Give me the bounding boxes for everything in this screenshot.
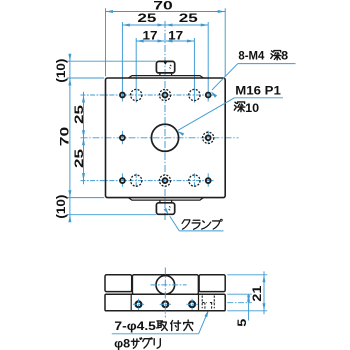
svg-text:8-M4: 8-M4	[238, 49, 264, 63]
crosshair hole (194.4,180.6)	[193, 173, 195, 188]
extension line y=214.7 (bottom knob)	[67, 214, 156, 216]
hidden counterbore hole I (136.2,95.0)	[131, 89, 142, 100]
label 8-M4 kanji FUKA(depth) 8	[271, 51, 281, 60]
clamp bar bottom	[128, 198, 203, 201]
svg-text:(10): (10)	[54, 195, 68, 219]
hidden counterbore hole K (136.2,180.6)	[131, 175, 142, 186]
dimension line 25 25 (top)	[122, 24, 208, 26]
dimension line 21 (side)	[263, 271, 265, 314]
mounting hole phi4.5 with phi8 counterbore G (208.2,137.8)	[206, 135, 211, 140]
front hole P (138.5,304.3)	[136, 301, 142, 307]
svg-text:25: 25	[179, 11, 198, 25]
svg-text:25: 25	[72, 105, 86, 124]
leader clamp	[179, 230, 223, 232]
M16 center hole	[151, 124, 178, 151]
mounting hole phi4.5 with phi8 counterbore H (165.0,180.6)	[163, 178, 168, 183]
extension line right x=225.2	[224, 8, 226, 76]
extension line left x=105.5	[105, 8, 107, 76]
M4 tapped hole D (122.4,180.6)	[120, 178, 125, 183]
clamp bar top	[128, 76, 203, 78]
mounting hole phi4.5 with phi8 counterbore F (165.0,95.0)	[163, 93, 168, 98]
svg-text:8: 8	[281, 49, 288, 63]
clamp knob top notch	[163, 61, 168, 65]
side view table left section	[105, 275, 132, 292]
svg-text:(10): (10)	[54, 59, 68, 83]
M4 tapped hole B (208.2,95.0)	[206, 93, 211, 98]
extension line y=197.6 (plate bottom)	[67, 197, 104, 199]
side view clamp knob circle	[156, 276, 175, 295]
svg-text:7-φ4.5: 7-φ4.5	[114, 319, 156, 333]
row center line y=95	[81, 94, 215, 96]
dimension line (10)/70/(10) (left)	[69, 55, 71, 221]
svg-text:M16 P1: M16 P1	[235, 83, 281, 97]
M4 tapped hole C (122.4,137.8)	[120, 135, 125, 140]
leader 7-phi4.5	[112, 333, 199, 335]
row center line y=180.6	[81, 180, 215, 182]
extension line y=274.8 (side top)	[227, 274, 267, 276]
front hole Q (165.3,304.3)	[162, 301, 168, 307]
side view table right section	[199, 275, 225, 292]
dimension line 25 25 (left)	[83, 92, 85, 184]
extension line x=136.2	[135, 38, 137, 103]
hidden counterbore hole J (194.4,95.0)	[189, 89, 200, 100]
label mounting-hole kanji (toritsuke-ana)	[157, 321, 168, 331]
extension line x=122.4	[121, 22, 123, 102]
label M16 depth 10	[234, 102, 245, 112]
side view knob crosshair	[151, 284, 187, 286]
crosshair hole (136.2,180.6)	[135, 173, 137, 188]
horizontal center line y=137.8	[81, 137, 239, 139]
side view saddle center section	[132, 275, 198, 295]
extension line x=194.4	[193, 38, 195, 103]
hidden counterbore profile (side view)	[201, 296, 203, 309]
extension line y=294.2 (base top)	[227, 293, 252, 295]
crosshair hole (122.4,180.6)	[121, 173, 123, 188]
svg-text:70: 70	[57, 126, 71, 146]
side view vertical center line	[164, 268, 166, 318]
M4 tapped hole E (208.2,180.6)	[206, 178, 211, 183]
vertical center line	[164, 21, 166, 221]
hidden counterbore hole L (194.4,180.6)	[189, 175, 200, 186]
front hole Q crosshair	[160, 303, 171, 305]
clamp knob bottom neck	[159, 200, 161, 203]
svg-text:φ8: φ8	[114, 337, 130, 350]
clamp knob bottom body	[156, 203, 174, 215]
svg-text:17: 17	[168, 28, 183, 42]
side view base block	[105, 294, 225, 311]
label counterbore katakana (zaguri)	[131, 338, 142, 348]
front hole R crosshair	[187, 303, 198, 305]
side view base seam right	[198, 295, 200, 311]
leader M16	[234, 97, 283, 99]
svg-text:17: 17	[143, 28, 158, 42]
clamp knob top body	[156, 61, 174, 73]
extension line x=208.2	[207, 22, 209, 102]
front hole P crosshair	[133, 303, 144, 305]
label clamp (kurampu katakana)	[181, 220, 190, 229]
extension line y=302.7 (counterbore depth)	[227, 302, 252, 304]
front hole R (192.1,304.3)	[189, 301, 195, 307]
extension line y=78 (plate top)	[67, 77, 104, 79]
dimension line 5 (side)	[248, 294, 250, 320]
dimension line 70 (top)	[106, 11, 226, 13]
svg-text:5: 5	[235, 318, 249, 326]
clamp knob top knurl marks	[170, 65, 172, 66]
clamp knob bottom knurl marks	[169, 209, 171, 210]
svg-text:25: 25	[137, 11, 156, 25]
clamp knob top neck	[159, 73, 161, 76]
svg-text:21: 21	[250, 285, 264, 301]
svg-text:10: 10	[245, 101, 259, 115]
crosshair hole (122.4,137.8)	[121, 131, 123, 145]
extension line y=310.8 (side bottom)	[227, 310, 267, 312]
svg-text:25: 25	[72, 149, 86, 168]
leader 8-M4	[238, 63, 296, 65]
crosshair hole (208.2,180.6)	[207, 173, 209, 188]
plate outline 70x70	[106, 78, 226, 198]
crosshair hole (208.2,137.8)	[207, 131, 209, 145]
side view base seam left	[130, 295, 132, 311]
extension line y=61.2 (knob top)	[67, 60, 156, 62]
M4 tapped hole A (122.4,95.0)	[120, 93, 125, 98]
dimension line 17 17 (top)	[136, 40, 194, 42]
